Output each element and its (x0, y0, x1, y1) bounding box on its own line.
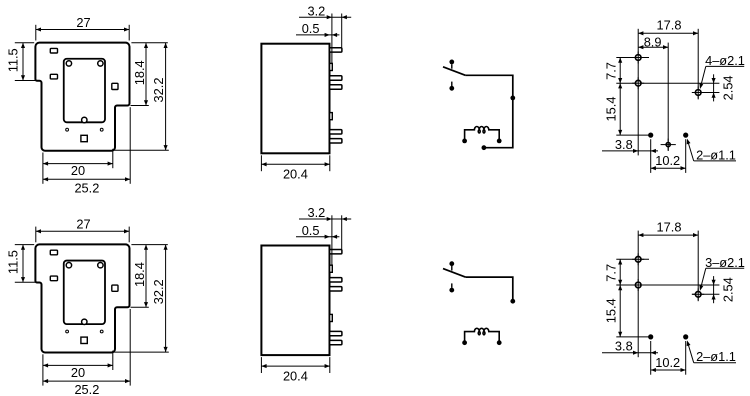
extension line top-right shared by dims 18.4 and 32.2, row 1 (131, 42, 167, 44)
small hole right, bottom view, row 1 (100, 128, 103, 131)
wire end terminal dot, row 2 (510, 299, 515, 304)
relay case side view outline, row 1 (261, 44, 329, 154)
small hole left, bottom view, row 2 (66, 330, 69, 333)
pin hole bottom-center, bottom view, row 2 (82, 319, 87, 324)
terminal slot upper-left, bottom view, row 2 (50, 250, 57, 255)
dimension 2.54, row 2 (713, 276, 715, 303)
pin hole top-right, bottom view, row 1 (98, 61, 103, 66)
dimension 25.2, row 2 (43, 380, 130, 382)
dimension 0.5, row 2 (296, 236, 339, 238)
svg-text:18.4: 18.4 (132, 262, 147, 287)
dimension 15.4, row 2 (619, 285, 621, 337)
relay case outline, bottom view, row 2 (35, 244, 129, 352)
terminal slot right, bottom view, row 2 (112, 285, 118, 291)
pin 2, side view, row 1 (330, 76, 342, 80)
svg-text:27: 27 (76, 217, 90, 232)
svg-text:11.5: 11.5 (5, 250, 20, 274)
centre line left hole column, PCB view, row 2 (637, 231, 639, 358)
pin 2, side view, row 2 (330, 278, 342, 282)
mounting hole right, PCB view, row 2 (695, 292, 701, 298)
extension lines for dim 11.5, row 2 (15, 244, 34, 246)
pin 4, side view, row 2 (330, 331, 342, 335)
common terminal dot, row 1 (482, 145, 487, 150)
coil L1, schematic, row 2 (465, 328, 500, 342)
extension lines for dims 20 and 25.2, row 2 (42, 354, 44, 385)
dimension 0.5, row 1 (296, 34, 339, 36)
svg-text:25.2: 25.2 (74, 180, 99, 195)
svg-text:0.5: 0.5 (302, 223, 320, 238)
mounting hole top-left, PCB view, row 1 (635, 55, 641, 61)
coil terminal right, schematic, row 1 (497, 139, 502, 144)
dimension 27 (case width), row 1 (36, 29, 129, 31)
pin 1, side view, row 2 (330, 250, 342, 254)
case seam tab lower, side view, row 2 (330, 314, 333, 321)
switch lower contact terminal, schematic, row 2 (449, 288, 454, 293)
dimension 32.2 (total case height), row 2 (165, 245, 167, 353)
hole row line 2, PCB view, row 2 (616, 284, 719, 286)
svg-text:3.2: 3.2 (308, 205, 326, 220)
small hole left, bottom view, row 1 (66, 128, 69, 131)
pin hole top-left, bottom view, row 2 (66, 263, 71, 268)
extension lines for dim 20.4, row 1 (260, 155, 262, 171)
case seam tab upper, side view, row 1 (330, 63, 333, 70)
extension lines for dim 10.2, row 1 (650, 139, 652, 173)
centre line left hole column, PCB view, row 1 (637, 29, 639, 156)
dimension 18.4 (upper case height), row 2 (145, 245, 147, 308)
svg-text:8.9: 8.9 (644, 34, 662, 49)
coil terminal left, schematic, row 2 (462, 340, 467, 345)
extension line at case bottom for dim 32.2, row 1 (114, 149, 169, 151)
pin 5, side view, row 2 (330, 340, 342, 344)
dimension 17.8 (hole span), row 1 (638, 32, 698, 34)
pin hole bottom-center, bottom view, row 1 (82, 117, 87, 122)
svg-text:2–ø1.1: 2–ø1.1 (696, 147, 736, 162)
dimension 3.2 (pin length), row 2 (299, 218, 351, 220)
hole row line 1, PCB view, row 2 (616, 258, 649, 260)
dimension 3.2 (pin length), row 1 (299, 16, 351, 18)
hole row line 2, PCB view, row 1 (616, 82, 719, 84)
svg-text:20.4: 20.4 (283, 167, 308, 182)
svg-text:32.2: 32.2 (151, 279, 166, 304)
extension line top-right shared by dims 18.4 and 32.2, row 2 (131, 244, 167, 246)
terminal slot upper-left, bottom view, row 1 (50, 48, 57, 53)
wire from switch to common terminal, row 1 (465, 75, 512, 147)
extension line at right step for dim 18.4, row 2 (131, 306, 149, 308)
svg-text:18.4: 18.4 (132, 60, 147, 85)
mounting hole top-left, PCB view, row 2 (635, 257, 641, 263)
pin hole dot left (o1.1), PCB view, row 1 (648, 133, 653, 138)
dimension 27 (case width), row 2 (36, 230, 129, 232)
svg-text:20.4: 20.4 (283, 369, 308, 384)
svg-text:15.4: 15.4 (603, 97, 618, 122)
extension lines for dims 20 and 25.2, row 1 (42, 153, 44, 184)
pin 5, side view, row 1 (330, 139, 342, 143)
extension lines for dim 10.2, row 2 (650, 341, 652, 375)
dimension 3.8, row 2 (602, 352, 658, 354)
extension lines for dim 3.2, row 2 (331, 215, 333, 265)
dimension 10.2, row 1 (651, 167, 686, 169)
dimension 3.8, row 1 (602, 150, 658, 152)
dimension 11.5 (flange height), row 1 (22, 43, 24, 81)
svg-text:2.54: 2.54 (720, 277, 735, 302)
extension lines for dim 3.2, row 1 (331, 14, 333, 64)
small hole right, bottom view, row 2 (100, 330, 103, 333)
dimension 20.4 (case depth), row 2 (261, 365, 329, 367)
square hole bottom, bottom view, row 1 (81, 135, 87, 141)
pin 3, side view, row 2 (330, 287, 342, 291)
dimension 20 (lower case width), row 1 (43, 163, 113, 165)
mounting hole mid-left, PCB view, row 1 (635, 80, 641, 86)
svg-text:27: 27 (76, 15, 90, 30)
extension line at case bottom for dim 32.2, row 2 (114, 351, 169, 353)
dimension 15.4, row 1 (619, 83, 621, 135)
terminal slot right, bottom view, row 1 (112, 83, 118, 89)
square hole bottom, bottom view, row 2 (81, 337, 87, 343)
small hole bottom-centre, PCB view, row 1 (666, 143, 670, 147)
extension line at right step for dim 18.4, row 1 (131, 105, 149, 107)
dimension 18.4 (upper case height), row 1 (145, 43, 147, 106)
svg-text:10.2: 10.2 (655, 153, 680, 168)
svg-text:7.7: 7.7 (603, 264, 618, 282)
relay case side view outline, row 2 (261, 246, 329, 356)
switch lower contact terminal, schematic, row 1 (449, 86, 454, 91)
dimension 32.2 (total case height), row 1 (165, 43, 167, 151)
dimension 11.5 (flange height), row 2 (22, 245, 24, 283)
hole row line 3, PCB view, row 1 (692, 92, 720, 94)
svg-text:2–ø1.1: 2–ø1.1 (696, 349, 736, 364)
mounting hole mid-left, PCB view, row 2 (635, 282, 641, 288)
dimension 17.8 (hole span), row 2 (638, 234, 698, 236)
extension lines for dim 11.5, row 1 (15, 42, 34, 44)
pin 4, side view, row 1 (330, 130, 342, 134)
junction terminal on wire, row 1 (510, 96, 515, 101)
centre line right hole column, PCB view, row 1 (697, 29, 699, 100)
relay case outline, bottom view, row 1 (35, 43, 129, 151)
terminal slot lower-left, bottom view, row 2 (50, 276, 57, 281)
svg-text:3.8: 3.8 (615, 137, 633, 152)
hole row line 3, PCB view, row 2 (692, 293, 720, 295)
dimension 20.4 (case depth), row 1 (261, 163, 329, 165)
dimension 20 (lower case width), row 2 (43, 364, 113, 366)
inner cover outline, bottom view, row 1 (64, 59, 105, 123)
inner cover outline, bottom view, row 2 (64, 261, 105, 325)
switch movable blade, schematic, row 1 (443, 67, 465, 76)
svg-text:17.8: 17.8 (657, 220, 682, 235)
pin hole dot right (o1.1), PCB view, row 1 (683, 133, 688, 138)
pin hole dot right (o1.1), PCB view, row 2 (683, 334, 688, 339)
svg-text:3.2: 3.2 (308, 3, 326, 18)
case seam tab upper, side view, row 2 (330, 265, 333, 272)
pin hole top-right, bottom view, row 2 (98, 263, 103, 268)
wire from switch down to terminal, row 2 (465, 277, 512, 301)
pin hole top-left, bottom view, row 1 (66, 61, 71, 66)
case seam tab lower, side view, row 1 (330, 113, 333, 120)
switch movable blade, schematic, row 2 (443, 269, 465, 278)
dots row line, PCB view, row 2 (616, 336, 650, 338)
svg-text:32.2: 32.2 (151, 78, 166, 103)
dimension 7.7, row 2 (619, 259, 621, 285)
svg-text:10.2: 10.2 (655, 355, 680, 370)
centre line middle hole column, PCB view, row 1 (667, 43, 669, 151)
mounting hole right, PCB view, row 1 (695, 90, 701, 96)
svg-text:0.5: 0.5 (302, 21, 320, 36)
svg-text:11.5: 11.5 (5, 48, 20, 72)
dots row line, PCB view, row 1 (616, 134, 650, 136)
extension lines for dim 27, row 2 (35, 227, 37, 243)
svg-text:2.54: 2.54 (720, 75, 735, 100)
svg-text:3.8: 3.8 (615, 339, 633, 354)
switch fixed contact terminal (top), schematic, row 1 (449, 60, 454, 65)
svg-text:17.8: 17.8 (657, 18, 682, 33)
svg-text:20: 20 (71, 365, 85, 380)
dimension 2.54, row 1 (713, 74, 715, 101)
extension lines for dim 27, row 1 (35, 25, 37, 41)
hole row line 1, PCB view, row 1 (616, 57, 649, 59)
terminal slot lower-left, bottom view, row 1 (50, 74, 57, 79)
centre line right hole column, PCB view, row 2 (697, 231, 699, 302)
svg-text:20: 20 (71, 163, 85, 178)
pin hole dot left (o1.1), PCB view, row 2 (648, 334, 653, 339)
dimension 10.2, row 2 (651, 369, 686, 371)
svg-text:15.4: 15.4 (603, 298, 618, 323)
dimension 8.9, row 1 (638, 46, 668, 48)
svg-text:7.7: 7.7 (603, 62, 618, 80)
svg-text:25.2: 25.2 (74, 382, 99, 396)
dimension 25.2, row 1 (43, 178, 130, 180)
coil L1, schematic, row 1 (465, 127, 500, 141)
coil terminal left, schematic, row 1 (462, 139, 467, 144)
pin 3, side view, row 1 (330, 85, 342, 89)
extension lines for dim 20.4, row 2 (260, 357, 262, 373)
switch fixed contact terminal (top), schematic, row 2 (449, 261, 454, 266)
dimension 7.7, row 1 (619, 58, 621, 84)
pin 1, side view, row 1 (330, 48, 342, 52)
coil terminal right, schematic, row 2 (497, 340, 502, 345)
